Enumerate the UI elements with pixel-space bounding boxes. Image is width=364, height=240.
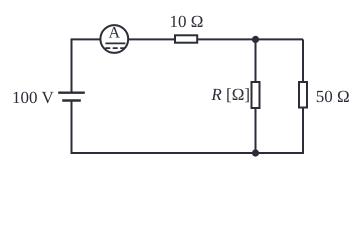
- battery short plate (-): [62, 99, 81, 101]
- resistor R1 (10 ohm, horizontal box): [175, 35, 197, 42]
- node junction bottom (dot): [252, 149, 259, 156]
- node junction top (dot): [252, 36, 259, 43]
- wire top (node A to node B via ammeter and 10 ohm resistor): [72, 38, 304, 40]
- svg-text:100 V: 100 V: [12, 88, 54, 107]
- DC symbol dashed line: [105, 47, 125, 49]
- ammeter M1 (DC ammeter): [100, 24, 128, 53]
- battery V1 (100 V source): [58, 93, 85, 101]
- battery long plate (+): [58, 91, 85, 93]
- svg-text:R [Ω]: R [Ω]: [210, 85, 250, 104]
- wire right vertical (top-right corner through 50 ohm to bottom-right corner): [302, 39, 304, 153]
- DC symbol solid line: [105, 42, 125, 44]
- wire left vertical upper (top-left corner to battery + plate): [71, 38, 73, 92]
- wire left vertical lower (battery - plate to bottom-left corner): [71, 101, 73, 155]
- wire middle vertical (top junction through R to bottom junction): [255, 39, 257, 153]
- ammeter body circle: [100, 25, 128, 53]
- resistor R (unknown, vertical box): [252, 82, 260, 108]
- svg-text:50 Ω: 50 Ω: [316, 87, 350, 106]
- svg-text:10 Ω: 10 Ω: [170, 12, 204, 31]
- svg-text:A: A: [109, 24, 121, 41]
- resistor R2 (50 ohm, vertical box): [299, 82, 307, 108]
- wire bottom (bottom-left corner to bottom-right corner): [71, 152, 305, 154]
